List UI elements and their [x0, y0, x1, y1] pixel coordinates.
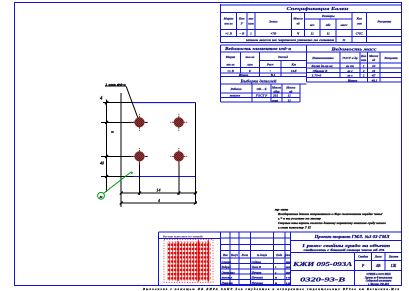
svg-text:ат эл: ат эл [224, 22, 233, 26]
svg-text:4: 4 [157, 198, 160, 203]
svg-text:×1 В: ×1 В [225, 31, 232, 35]
svg-text:Расчет выполнен по методу: Расчет выполнен по методу [163, 234, 204, 238]
svg-text:Стадия: Стадия [358, 256, 368, 259]
svg-text:Листов: Листов [388, 256, 399, 259]
svg-text:ОБ. - й: ОБ. - й [257, 86, 267, 91]
svg-text:Выборка деталей: Выборка деталей [239, 78, 277, 83]
svg-text:0320-93-В: 0320-93-В [300, 276, 346, 283]
svg-text:итого масса на чертеже указано: итого масса на чертеже указано не снимая [246, 38, 334, 42]
svg-text:1 ряжс свайны хрядо ва объект: 1 ряжс свайны хрядо ва объект [302, 243, 390, 248]
svg-text:ед: ед [372, 58, 375, 62]
svg-text:Ведомость элементов изд-я: Ведомость элементов изд-я [224, 46, 291, 51]
svg-text:м: м [98, 194, 102, 199]
svg-text:9: 9 [110, 131, 115, 133]
svg-text:Кол: Кол [360, 54, 367, 58]
svg-text:ед: ед [289, 89, 292, 93]
svg-text:г.* о вы усилено по месту: г.* о вы усилено по месту [278, 217, 322, 221]
svg-text:Расч: Расч [267, 63, 274, 67]
svg-text:2: 2 [362, 74, 365, 78]
svg-text:Сворные швы варить согласно да: Сворные швы варить согласно данному норм… [278, 221, 387, 225]
svg-text:Эскиз: Эскиз [269, 19, 278, 23]
svg-text:Словца: Словца [222, 260, 232, 264]
svg-text:масс: масс [339, 23, 348, 27]
svg-text:Спецификация Балки: Спецификация Балки [287, 6, 350, 11]
svg-text:202: 202 [272, 94, 278, 98]
svg-text:Расценка: Расценка [384, 56, 398, 60]
svg-text:2: 2 [362, 69, 365, 73]
svg-text:мок: мок [285, 260, 292, 264]
svg-text:1: 1 [250, 31, 252, 35]
svg-text:сова: сова [272, 98, 278, 102]
svg-text:Работа: Работа [231, 87, 242, 91]
svg-text:41: 41 [371, 69, 376, 73]
svg-text:Член В: Член В [252, 265, 262, 269]
svg-text:Кол: Кол [238, 17, 245, 21]
svg-text:Ведрал: Ведрал [221, 265, 232, 269]
svg-text:4: 4 [99, 97, 103, 102]
svg-text:Лист: Лист [240, 254, 248, 257]
svg-text:Расход: Расход [278, 55, 288, 59]
svg-text:11: 11 [327, 31, 331, 35]
svg-text:ед: ед [296, 22, 299, 26]
svg-text:ат эл: ат эл [226, 63, 234, 67]
svg-text:свайносеть с башней свинца час: свайносеть с башней свинца часов об 4% [304, 249, 386, 252]
svg-text:44: 44 [371, 64, 376, 68]
svg-text:Наименование: Наименование [311, 56, 334, 60]
svg-text:Нивелир: Нивелир [221, 281, 234, 285]
svg-text:Ведомость масс: Ведомость масс [330, 46, 377, 51]
svg-text:СЧС: СЧС [356, 31, 364, 35]
svg-text:Марка: Марка [223, 17, 234, 21]
svg-text:Проект тормат ГМЛ. №3 03-ГМЛ: Проект тормат ГМЛ. №3 03-ГМЛ [313, 235, 390, 239]
svg-text:Км: Км [290, 63, 296, 67]
svg-text:− В: − В [239, 31, 245, 35]
svg-text:4Г: 4Г [371, 74, 376, 78]
svg-text:Начальн: Начальн [251, 276, 264, 280]
svg-text:также: также [230, 94, 241, 98]
svg-text:№ докум: № докум [256, 254, 267, 257]
svg-text:11: 11 [342, 38, 346, 42]
svg-text:абс: абс [326, 23, 331, 27]
svg-text:×7В: ×7В [270, 31, 277, 35]
svg-text:ГОСТ Р: ГОСТ Р [255, 94, 268, 98]
svg-text:м: м [274, 276, 277, 280]
svg-text:Расценка: Расценка [377, 19, 391, 23]
svg-text:кол-во: кол-во [246, 55, 255, 59]
svg-text:г.свая швеллер 7 П: г.свая швеллер 7 П [278, 226, 312, 230]
svg-text:общ: общ [273, 89, 279, 93]
svg-text:11: 11 [288, 94, 291, 98]
svg-text:Лист: Лист [374, 256, 383, 259]
svg-text:Размеры: Размеры [322, 14, 335, 18]
svg-text:Начальн: Начальн [251, 281, 264, 285]
svg-text:асс: асс [310, 23, 315, 27]
svg-text:Масса: Масса [368, 54, 378, 58]
svg-text:в м: в м [286, 276, 290, 280]
svg-text:Обвязка В: Обвязка В [313, 69, 329, 73]
svg-text:14: 14 [157, 188, 161, 193]
svg-text:11: 11 [311, 31, 315, 35]
svg-text:Итого: Итого [238, 73, 249, 77]
svg-text:11: 11 [288, 98, 291, 102]
svg-text:шт: шт [248, 22, 254, 26]
svg-text:Кол: Кол [356, 17, 363, 21]
svg-text:В.1: В.1 [270, 73, 276, 77]
svg-text:40: 40 [99, 161, 104, 166]
svg-text:ГОСТ и др: ГОСТ и др [341, 56, 358, 60]
svg-text:Начало: Начало [251, 270, 262, 274]
svg-text:пр ает: пр ает [275, 207, 289, 211]
svg-text:14Л: 14Л [291, 69, 297, 73]
svg-text:Колуч: Колуч [230, 254, 239, 257]
svg-text:Негабаритные детали отправляют: Негабаритные детали отправляются в сборе… [277, 212, 383, 216]
svg-text:×1 В: ×1 В [227, 69, 234, 73]
svg-text:м: м [274, 281, 277, 285]
svg-text:Балка дв-ая вн: Балка дв-ая вн [310, 64, 332, 68]
svg-text:КЖИ 095-09ЗА: КЖИ 095-09ЗА [292, 261, 353, 268]
svg-text:Масса: Масса [292, 17, 303, 21]
svg-text:Изм: Изм [222, 254, 228, 257]
svg-text:гн ст: гн ст [346, 64, 354, 68]
svg-text:мелькал: мелькал [221, 276, 233, 280]
svg-text:свн: свн [357, 22, 362, 26]
svg-text:мок: мок [285, 270, 292, 274]
svg-text:шт: шт [247, 63, 253, 67]
svg-text:Содрал: Содрал [252, 260, 262, 264]
svg-text:Марка: Марка [225, 55, 236, 59]
svg-text:Выполнено с помощью ПК ЛИРА СА: Выполнено с помощью ПК ЛИРА САПР для сту… [142, 287, 399, 291]
svg-text:г. Москва, РФ-ЖЛ: г. Москва, РФ-ЖЛ [368, 283, 389, 286]
svg-text:в м: в м [286, 281, 290, 285]
svg-text:1Ж: 1Ж [391, 263, 397, 268]
svg-text:L 75×5: L 75×5 [311, 74, 322, 78]
svg-text:мок: мок [285, 265, 292, 269]
svg-text:4В: 4В [375, 263, 381, 268]
svg-text:лис: лис [247, 17, 254, 21]
svg-text:гн с: гн с [347, 74, 353, 78]
svg-text:49.1: 49.1 [371, 78, 378, 82]
svg-text:Отмыкал: Отмыкал [222, 270, 236, 274]
svg-text:Дата: Дата [283, 254, 291, 257]
svg-text:гн с: гн с [347, 69, 353, 73]
svg-text:Ч: Ч [297, 31, 300, 35]
svg-text:Итого: Итого [347, 78, 358, 82]
svg-text:1 отв ⌀⬥-о: 1 отв ⌀⬥-о [105, 82, 126, 86]
svg-text:шт: шт [361, 58, 367, 62]
svg-text:Подп: Подп [275, 254, 283, 257]
